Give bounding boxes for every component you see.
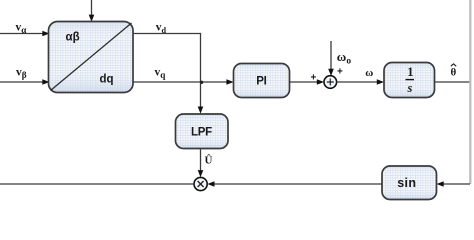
wire summing junction to integrator: [337, 79, 384, 85]
svg-text:vα: vα: [16, 21, 28, 35]
wire feedback into sin block: [437, 181, 471, 187]
svg-text:+: +: [337, 66, 343, 77]
label 1 over s: [406, 65, 415, 95]
wire v_beta input: [0, 79, 50, 85]
svg-text:sin: sin: [397, 176, 416, 190]
wire U-hat from LPF to multiplier: [198, 149, 204, 178]
svg-text:θ: θ: [451, 66, 457, 78]
multiplier: [194, 177, 207, 190]
svg-text:PI: PI: [256, 76, 266, 88]
svg-text:vβ: vβ: [16, 67, 27, 81]
svg-text:vq: vq: [155, 67, 167, 81]
gray feedback wire at right edge: [469, 0, 471, 184]
svg-text:Û: Û: [205, 154, 213, 167]
svg-text:vd: vd: [156, 22, 167, 35]
junction dot at v_d / v_q crossing: [200, 81, 203, 84]
sin block: [382, 166, 437, 200]
svg-text:+: +: [311, 73, 317, 84]
svg-text:s: s: [407, 81, 413, 95]
integrator block 1/s: [384, 63, 435, 98]
LPF block: [176, 114, 229, 149]
transform block alpha-beta to dq: [49, 22, 134, 93]
svg-text:LPF: LPF: [191, 127, 212, 139]
wire v_q from transform to PI: [133, 79, 234, 85]
svg-text:ωo: ωo: [337, 49, 352, 66]
wire PI to summing junction: [290, 79, 325, 85]
wire v_alpha input: [0, 31, 50, 37]
wire sin to multiplier: [207, 181, 382, 187]
wire theta-hat output: [435, 81, 470, 83]
PI block: [234, 64, 290, 98]
summing junction: [324, 76, 337, 89]
wire multiplier output to left edge: [0, 183, 194, 185]
svg-text:dq: dq: [100, 73, 114, 85]
svg-text:αβ: αβ: [66, 32, 80, 44]
svg-text:1: 1: [407, 65, 413, 79]
wire top input into transform block: [89, 0, 95, 22]
wire v_d from transform to LPF: [133, 34, 203, 114]
wire omega_o feedforward input: [328, 41, 334, 76]
label theta-hat: [451, 64, 457, 79]
svg-text:ω: ω: [365, 67, 373, 79]
